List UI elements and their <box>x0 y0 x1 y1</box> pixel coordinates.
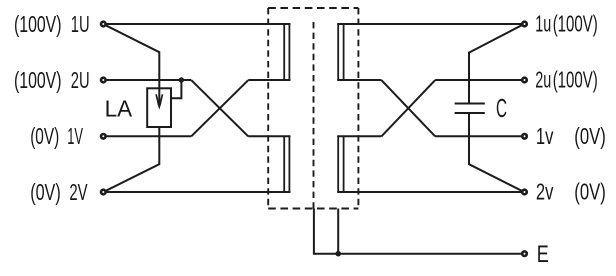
svg-text:E: E <box>537 241 549 268</box>
svg-text:1U: 1U <box>71 11 90 37</box>
arrester arrow shaft <box>158 89 160 105</box>
earth junction dot <box>335 251 341 257</box>
transformer case dashed box top edge <box>268 7 358 9</box>
wire upper-right winding bottom horizontal (row2) <box>337 79 381 81</box>
earth wire vertical from case (right) <box>337 209 339 254</box>
wire capacitor vertical upper segment <box>468 52 470 103</box>
wire 1v horizontal (row3 right terminal segment) <box>435 135 521 137</box>
wire 2u horizontal (row2 right terminal segment) <box>435 79 521 81</box>
arrester arrowhead left wing <box>156 94 159 105</box>
terminal 1U <box>101 22 106 27</box>
svg-text:2V: 2V <box>69 179 88 205</box>
wire X crossing left: diagonal 2U down to row3 <box>191 80 248 136</box>
wire 2U horizontal (row2 left terminal segment) <box>106 79 191 81</box>
terminal 1u <box>522 22 527 27</box>
transformer case dashed box left edge <box>267 8 269 209</box>
wire arrester diagonal down to 2V terminal <box>106 164 160 191</box>
wire lower-left winding top horizontal (row3) <box>248 135 290 137</box>
terminal 2v <box>522 190 527 195</box>
wire 1U diagonal to arrester line <box>106 25 160 52</box>
transformer case dashed box middle line <box>313 22 315 209</box>
terminal 1V <box>101 134 106 139</box>
svg-text:(100V): (100V) <box>553 66 598 92</box>
wire 1U horizontal (row1 left) <box>106 23 291 25</box>
wire 1V horizontal (row3 left terminal segment) <box>106 135 191 137</box>
svg-text:2U: 2U <box>71 67 90 93</box>
svg-text:1V: 1V <box>67 123 83 149</box>
winding P1 bars (upper-left) <box>283 24 285 80</box>
capacitor C top plate <box>455 103 485 105</box>
terminal E <box>522 251 527 256</box>
svg-text:(0V): (0V) <box>574 179 606 205</box>
arrester LA box <box>147 88 171 127</box>
wire arrester tap to 2U (L-shape) <box>171 80 181 98</box>
terminal 2U <box>101 78 106 83</box>
svg-text:2v: 2v <box>536 179 554 205</box>
svg-text:1u: 1u <box>535 10 551 36</box>
wire 1u diagonal to capacitor line <box>469 25 522 52</box>
wire X crossing right: diagonal up to row2 <box>382 80 436 136</box>
svg-text:(100V): (100V) <box>553 10 598 36</box>
capacitor C bottom plate <box>455 112 485 114</box>
arrester arrowhead right wing <box>160 94 163 105</box>
svg-text:(0V): (0V) <box>30 123 59 149</box>
winding S2 bars (lower-right) <box>337 136 339 192</box>
wire X crossing left: diagonal 1V up to row2 <box>191 80 248 136</box>
wire 2v horizontal (row4 right) <box>337 191 521 193</box>
svg-text:C: C <box>496 95 507 123</box>
wire 1u horizontal (row1 right) <box>337 23 521 25</box>
svg-text:(0V): (0V) <box>30 179 61 205</box>
svg-text:(100V): (100V) <box>14 67 62 93</box>
svg-text:2u: 2u <box>535 66 551 92</box>
wire 2V horizontal (row4 left) <box>106 191 291 193</box>
svg-text:LA: LA <box>105 96 133 122</box>
wire E horizontal <box>313 253 522 255</box>
junction dot on 2U line <box>179 77 184 82</box>
wire lower-right winding top horizontal (row3) <box>337 135 381 137</box>
arrester arrowhead tip <box>157 103 161 110</box>
wire capacitor diagonal down to 2v terminal <box>469 164 522 191</box>
wire capacitor vertical lower segment <box>468 114 470 165</box>
terminal 1v <box>522 134 527 139</box>
svg-text:(0V): (0V) <box>574 123 606 149</box>
transformer case dashed box bottom edge <box>268 208 358 210</box>
transformer case dashed box right edge <box>357 8 359 209</box>
winding P2 bars (lower-left) <box>283 136 285 192</box>
winding S1 bars (upper-right) <box>337 24 339 80</box>
wire arrester vertical upper segment <box>158 51 160 89</box>
wire upper-left winding bottom horizontal (row2) <box>248 79 290 81</box>
svg-text:1v: 1v <box>536 123 554 149</box>
wire arrester vertical lower segment <box>158 127 160 165</box>
wire X crossing right: diagonal down to row3 <box>382 80 436 136</box>
terminal 2V <box>101 190 106 195</box>
terminal 2u <box>522 78 527 83</box>
earth wire vertical from case (left, under middle dashed line) <box>313 209 315 254</box>
svg-text:(100V): (100V) <box>14 11 62 37</box>
